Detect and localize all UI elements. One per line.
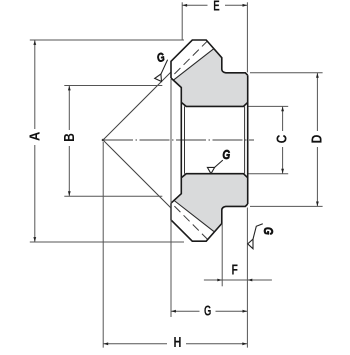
- dim A line: [34, 40, 36, 242]
- dim H extension left (from apex): [102, 142, 104, 348]
- dim E extension right: [246, 2, 248, 72]
- dim G extension left: [170, 79, 172, 317]
- dim D extension bottom: [250, 205, 323, 207]
- svg-text:H: H: [174, 335, 182, 350]
- dim E arrows: [182, 4, 187, 7]
- dim B extension bottom: [64, 195, 162, 197]
- svg-text:G: G: [204, 304, 211, 320]
- dim D extension top: [250, 72, 323, 74]
- gear outline upper: [171, 40, 248, 78]
- dim C extension top: [249, 105, 289, 107]
- dim G arrows: [171, 310, 176, 313]
- svg-text:G: G: [222, 147, 230, 162]
- tooth root line upper: [174, 49, 214, 80]
- hub right face: [247, 75, 249, 204]
- centerline: [103, 139, 254, 141]
- svg-text:E: E: [213, 0, 220, 15]
- dim A extension bottom: [30, 241, 184, 243]
- surface mark G2 triangle (bore): [207, 167, 214, 173]
- svg-text:G: G: [261, 227, 276, 235]
- dim A arrows: [33, 40, 36, 45]
- bore upper edge, chamfers, web face, transition upper: [171, 78, 248, 106]
- tooth root line lower: [174, 200, 214, 231]
- bore chamfer circle right: [244, 106, 246, 173]
- surface mark G1 tail: [161, 60, 168, 74]
- surface mark G1 triangle (tooth flank): [155, 74, 162, 82]
- dim D arrows: [316, 73, 319, 78]
- dim F arrows: [217, 279, 222, 282]
- dim A extension top: [30, 39, 184, 41]
- dim H line: [103, 343, 247, 345]
- tooth flank dashed line upper: [174, 41, 207, 74]
- dim C line: [282, 106, 284, 173]
- svg-text:A: A: [28, 132, 44, 141]
- svg-text:D: D: [309, 135, 325, 144]
- bore lower edge, chamfers, web face, transition lower: [171, 174, 248, 204]
- dim E line: [182, 4, 247, 6]
- dim E extension left: [181, 2, 183, 40]
- dim F extension left: [221, 224, 223, 286]
- dim B line: [68, 86, 70, 197]
- dim B extension top: [64, 85, 162, 87]
- svg-text:B: B: [62, 133, 78, 142]
- bore chamfer circle left: [184, 106, 186, 173]
- tooth flank dashed line lower: [174, 206, 207, 239]
- dim G line: [171, 310, 247, 312]
- dim D line: [316, 73, 318, 207]
- common right extension (hub face down): [246, 208, 248, 348]
- pitch cone line lower: [103, 140, 171, 208]
- surface mark G3 tail: [253, 224, 263, 239]
- surface mark G3 triangle (hub face): [248, 239, 253, 249]
- dim C extension bottom: [249, 173, 289, 175]
- dim F line: [204, 279, 272, 281]
- apex junction dot: [102, 139, 105, 142]
- svg-text:F: F: [232, 263, 239, 279]
- dim H arrows: [104, 342, 109, 345]
- dim B arrows: [68, 86, 71, 91]
- gear outline lower: [171, 203, 248, 241]
- gear body lower section fill: [174, 174, 248, 232]
- gear body upper section fill: [174, 49, 248, 107]
- surface mark G2 tail: [215, 160, 223, 167]
- pitch cone line upper: [103, 72, 171, 140]
- dim C arrows: [281, 107, 284, 112]
- web front face across bore: [180, 102, 182, 177]
- svg-text:C: C: [275, 135, 291, 144]
